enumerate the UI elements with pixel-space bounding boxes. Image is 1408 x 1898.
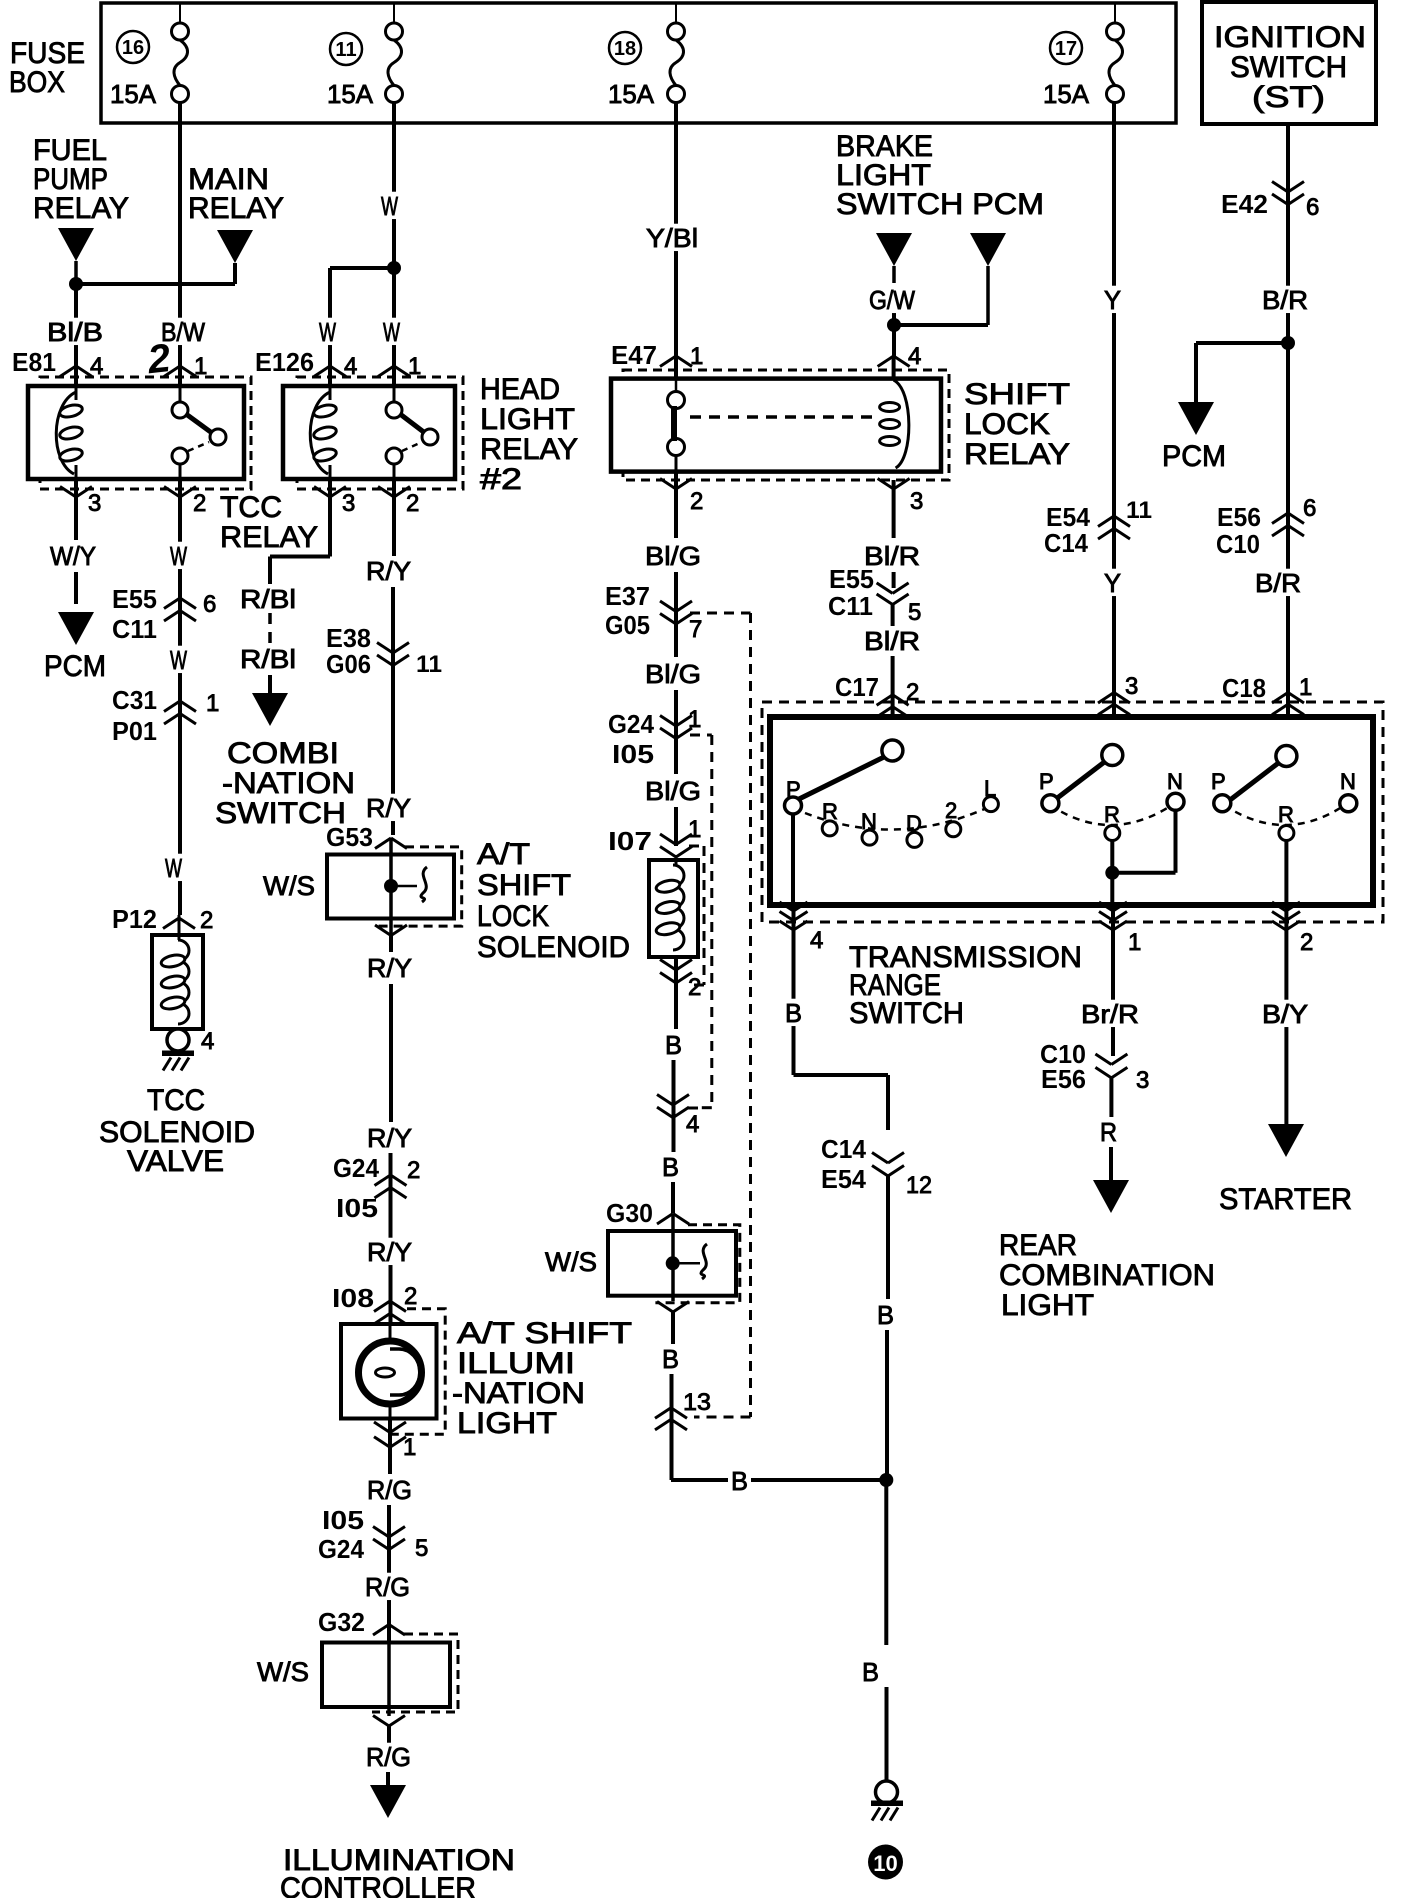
svg-text:RELAY: RELAY [33, 192, 129, 225]
svg-text:1: 1 [206, 690, 219, 717]
svg-text:Br/R: Br/R [1081, 999, 1139, 1029]
svg-text:G05: G05 [605, 610, 650, 640]
svg-text:R: R [1278, 802, 1294, 827]
svg-text:Bl/G: Bl/G [645, 776, 701, 806]
svg-text:B: B [877, 1300, 894, 1330]
svg-text:W/S: W/S [257, 1657, 309, 1687]
svg-text:N: N [1340, 769, 1356, 794]
svg-text:4: 4 [908, 343, 921, 370]
svg-text:G24: G24 [333, 1153, 379, 1183]
svg-text:RELAY: RELAY [480, 433, 578, 466]
svg-text:R: R [1104, 802, 1120, 827]
svg-text:R/G: R/G [366, 1742, 411, 1772]
svg-text:18: 18 [614, 38, 636, 60]
svg-text:G53: G53 [326, 822, 373, 852]
svg-text:A/T SHIFT: A/T SHIFT [457, 1317, 632, 1350]
svg-text:B/R: B/R [1255, 568, 1301, 598]
svg-text:Y: Y [1104, 285, 1121, 315]
svg-text:TCC: TCC [147, 1084, 205, 1117]
svg-text:4: 4 [686, 1111, 699, 1138]
svg-text:W: W [165, 853, 182, 883]
svg-text:3: 3 [88, 490, 101, 517]
svg-text:15A: 15A [110, 79, 157, 109]
svg-text:W: W [319, 317, 336, 347]
svg-text:4: 4 [201, 1028, 214, 1055]
svg-text:B: B [731, 1466, 748, 1496]
svg-text:B: B [665, 1030, 682, 1060]
svg-text:2: 2 [906, 679, 919, 706]
svg-text:R/Y: R/Y [367, 1123, 412, 1153]
svg-text:10: 10 [873, 1851, 897, 1876]
svg-text:COMBINATION: COMBINATION [999, 1259, 1215, 1292]
svg-text:R/G: R/G [367, 1475, 412, 1505]
svg-text:I05: I05 [336, 1193, 378, 1223]
svg-text:E126: E126 [255, 347, 314, 377]
svg-text:E56: E56 [1217, 502, 1261, 532]
svg-text:A/T: A/T [477, 838, 530, 871]
svg-text:Y: Y [1104, 568, 1121, 598]
svg-text:B: B [785, 998, 802, 1028]
svg-text:16: 16 [122, 37, 144, 59]
svg-text:REAR: REAR [999, 1229, 1077, 1262]
svg-text:W: W [170, 645, 187, 675]
svg-text:C18: C18 [1222, 673, 1266, 703]
svg-text:COMBI: COMBI [227, 737, 339, 770]
svg-text:B: B [862, 1657, 879, 1687]
svg-text:W/Y: W/Y [50, 541, 96, 571]
svg-text:R/Y: R/Y [366, 793, 411, 823]
svg-text:6: 6 [203, 591, 216, 618]
svg-text:-NATION: -NATION [452, 1377, 585, 1410]
svg-text:Bl/B: Bl/B [47, 317, 103, 347]
svg-text:RELAY: RELAY [220, 521, 318, 554]
svg-text:PCM: PCM [1162, 440, 1226, 473]
svg-text:2: 2 [1300, 929, 1313, 956]
svg-text:11: 11 [335, 39, 356, 61]
svg-text:C31: C31 [112, 685, 157, 715]
svg-text:11: 11 [416, 651, 442, 678]
svg-text:6: 6 [1306, 194, 1319, 221]
svg-text:6: 6 [1303, 495, 1316, 522]
svg-text:SHIFT: SHIFT [477, 869, 571, 902]
svg-text:#2: #2 [480, 463, 522, 496]
svg-text:N: N [1167, 769, 1183, 794]
svg-text:HEAD: HEAD [480, 373, 560, 406]
svg-text:1: 1 [1299, 674, 1312, 701]
svg-text:I08: I08 [332, 1283, 374, 1313]
svg-text:5: 5 [415, 1535, 428, 1562]
svg-text:P01: P01 [112, 716, 157, 746]
svg-text:I05: I05 [612, 739, 654, 769]
svg-text:12: 12 [906, 1172, 932, 1199]
svg-text:2: 2 [945, 798, 957, 823]
svg-text:1: 1 [1128, 929, 1141, 956]
svg-text:11: 11 [1126, 497, 1152, 524]
svg-text:R/Y: R/Y [366, 556, 411, 586]
svg-text:LIGHT: LIGHT [1001, 1289, 1094, 1322]
svg-text:G06: G06 [326, 649, 371, 679]
svg-text:R/Bl: R/Bl [240, 584, 296, 614]
svg-text:G32: G32 [318, 1607, 365, 1637]
svg-text:Bl/R: Bl/R [864, 626, 920, 656]
svg-text:C14: C14 [821, 1134, 867, 1164]
svg-text:E55: E55 [829, 564, 874, 594]
svg-text:15A: 15A [1043, 79, 1090, 109]
svg-text:E54: E54 [821, 1164, 867, 1194]
svg-text:-NATION: -NATION [222, 767, 355, 800]
svg-text:SOLENOID: SOLENOID [477, 931, 630, 964]
svg-text:W: W [170, 541, 187, 571]
svg-text:3: 3 [1125, 673, 1138, 700]
svg-text:2: 2 [200, 907, 213, 934]
svg-text:D: D [906, 811, 922, 836]
svg-text:R/Bl: R/Bl [240, 644, 296, 674]
svg-text:G/W: G/W [869, 285, 915, 315]
svg-text:17: 17 [1055, 38, 1077, 60]
svg-text:W: W [383, 317, 400, 347]
svg-text:15A: 15A [608, 79, 655, 109]
svg-text:C10: C10 [1216, 529, 1260, 559]
svg-text:LOCK: LOCK [477, 900, 549, 933]
svg-text:I07: I07 [608, 826, 652, 856]
svg-text:I05: I05 [322, 1505, 364, 1535]
svg-text:SHIFT: SHIFT [964, 378, 1070, 411]
svg-text:2: 2 [193, 490, 206, 517]
svg-text:P12: P12 [112, 904, 157, 934]
svg-text:B/R: B/R [1262, 285, 1308, 315]
svg-text:SWITCH: SWITCH [849, 997, 964, 1030]
svg-text:7: 7 [689, 616, 702, 643]
svg-text:TCC: TCC [220, 491, 282, 524]
svg-text:G30: G30 [606, 1198, 653, 1228]
svg-text:B: B [662, 1344, 679, 1374]
svg-text:E37: E37 [605, 581, 650, 611]
svg-text:(ST): (ST) [1252, 81, 1325, 114]
svg-text:2: 2 [406, 490, 419, 517]
svg-text:CONTROLLER: CONTROLLER [280, 1872, 476, 1898]
svg-text:E47: E47 [611, 340, 657, 370]
svg-text:R: R [822, 799, 838, 824]
svg-text:B/Y: B/Y [1262, 999, 1308, 1029]
svg-text:4: 4 [810, 927, 823, 954]
svg-text:R/G: R/G [365, 1572, 410, 1602]
svg-text:E55: E55 [112, 584, 157, 614]
svg-text:Bl/G: Bl/G [645, 541, 701, 571]
svg-text:15A: 15A [327, 79, 374, 109]
svg-text:RELAY: RELAY [188, 192, 284, 225]
svg-text:SWITCH PCM: SWITCH PCM [836, 188, 1044, 221]
svg-text:RELAY: RELAY [964, 438, 1070, 471]
svg-text:G24: G24 [608, 709, 654, 739]
svg-text:R/Y: R/Y [367, 1237, 412, 1267]
svg-text:G24: G24 [318, 1534, 364, 1564]
svg-text:C11: C11 [828, 591, 873, 621]
svg-text:1: 1 [690, 343, 703, 370]
svg-text:LIGHT: LIGHT [480, 403, 575, 436]
svg-text:2: 2 [690, 488, 703, 515]
svg-text:2: 2 [407, 1157, 420, 1184]
svg-text:E81: E81 [12, 347, 56, 377]
svg-text:3: 3 [342, 490, 355, 517]
svg-text:LOCK: LOCK [964, 408, 1050, 441]
svg-text:3: 3 [1136, 1067, 1149, 1094]
svg-text:2: 2 [145, 336, 173, 382]
svg-text:Y/Bl: Y/Bl [646, 223, 698, 253]
svg-text:IGNITION: IGNITION [1214, 21, 1366, 54]
svg-text:W: W [381, 191, 398, 221]
svg-text:2: 2 [404, 1283, 417, 1310]
svg-text:E42: E42 [1221, 189, 1268, 219]
svg-text:Bl/G: Bl/G [645, 659, 701, 689]
svg-text:LIGHT: LIGHT [457, 1407, 557, 1440]
svg-text:13: 13 [683, 1389, 711, 1416]
svg-text:2: 2 [688, 974, 701, 1001]
svg-text:P: P [786, 777, 801, 802]
svg-text:R/Y: R/Y [367, 953, 412, 983]
svg-text:STARTER: STARTER [1219, 1183, 1352, 1216]
svg-text:P: P [1211, 769, 1226, 794]
svg-text:P: P [1039, 769, 1054, 794]
svg-text:SWITCH: SWITCH [1230, 51, 1347, 84]
svg-text:5: 5 [908, 599, 921, 626]
svg-text:E56: E56 [1041, 1064, 1086, 1094]
svg-text:VALVE: VALVE [127, 1145, 224, 1178]
svg-text:L: L [984, 776, 996, 801]
svg-text:C14: C14 [1044, 528, 1088, 558]
svg-text:B: B [662, 1152, 679, 1182]
svg-text:3: 3 [910, 488, 923, 515]
svg-text:N: N [861, 809, 877, 834]
svg-text:ILLUMI: ILLUMI [457, 1347, 575, 1380]
svg-text:1: 1 [688, 816, 701, 843]
svg-text:W/S: W/S [263, 871, 315, 901]
svg-text:BOX: BOX [9, 66, 65, 99]
svg-text:1: 1 [403, 1434, 416, 1461]
svg-text:C17: C17 [835, 672, 879, 702]
svg-text:R: R [1100, 1117, 1117, 1147]
svg-text:W/S: W/S [545, 1247, 597, 1277]
svg-text:PCM: PCM [44, 650, 106, 683]
svg-text:1: 1 [688, 706, 701, 733]
svg-text:C11: C11 [112, 614, 157, 644]
